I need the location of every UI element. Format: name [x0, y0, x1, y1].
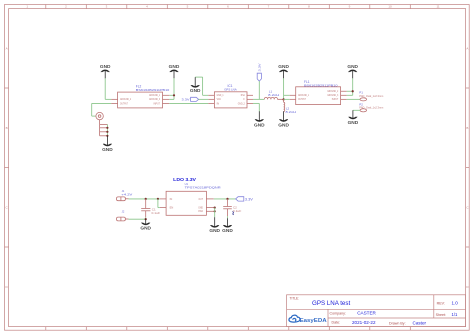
svg-text:2021-02-22: 2021-02-22 [352, 320, 376, 325]
pad P1 [360, 98, 367, 101]
svg-text:IN: IN [170, 197, 173, 201]
svg-text:CASTER: CASTER [357, 310, 376, 315]
regulator U1 TPS7A0218PDQNR [166, 191, 206, 215]
wire antenna to FL2 OUTPUT [92, 103, 112, 116]
svg-text:1/1: 1/1 [452, 312, 458, 317]
svg-text:GND_2: GND_2 [238, 103, 246, 105]
svg-text:GROUND_1: GROUND_1 [298, 95, 310, 97]
wire G4 down to FL1 right ground pins [347, 78, 353, 95]
wire junction to FL1 OUTPUT [284, 98, 290, 100]
svg-text:GPS LNA test: GPS LNA test [312, 300, 350, 307]
wire EN tie to IN [158, 199, 160, 208]
svg-text:VCC: VCC [217, 99, 222, 101]
ground flag G9 below connector [106, 136, 108, 145]
junction node L1-L2-FL1 [283, 98, 285, 100]
svg-text:A: A [466, 46, 468, 50]
junction at FL1 right ground [352, 90, 354, 92]
wire J1 to U1 IN [129, 198, 160, 200]
capacitor C2 0.1uF [223, 199, 232, 216]
antenna connector CON1 [96, 112, 108, 135]
svg-text:EN: EN [170, 206, 174, 210]
svg-text:GROUND_3: GROUND_3 [327, 95, 339, 97]
svg-text:OUT: OUT [199, 197, 204, 201]
wire G2 down to FL2 right ground pins [169, 78, 174, 99]
wire U1 OUT to flag and C2 [214, 198, 236, 200]
ground flag G8 below P2 [352, 110, 354, 118]
junction U1 GND pin [214, 207, 216, 209]
svg-text:8.2nH: 8.2nH [286, 110, 297, 114]
svg-text:GND: GND [348, 120, 359, 125]
svg-text:GND: GND [347, 64, 358, 69]
ground flag G12 below C2 [227, 218, 229, 226]
svg-text:PAD_Oval_1x2.3mm: PAD_Oval_1x2.3mm [359, 94, 383, 98]
ground flag G5 small [194, 77, 196, 86]
svg-text:GND: GND [198, 206, 203, 210]
svg-text:INPUT: INPUT [154, 103, 161, 105]
ground flag G4 above FL1 right [348, 70, 357, 72]
svg-text:GROUND_2: GROUND_2 [327, 91, 339, 93]
op-amp IC1 GPS LNA [214, 92, 247, 108]
svg-text:IN: IN [217, 103, 220, 105]
ground flag G6 below IC1 [258, 111, 260, 120]
svg-text:Drawn By:: Drawn By: [389, 322, 406, 326]
junction shield pin 3 [106, 131, 108, 133]
wire J2 to ground rail [129, 218, 146, 220]
svg-text:RSA: RSA [241, 94, 245, 97]
junction shield pin 2 [106, 127, 108, 129]
connector J1 +4.2V input [117, 197, 129, 201]
svg-text:GND: GND [140, 226, 151, 231]
svg-text:OUTPUT: OUTPUT [120, 103, 128, 105]
svg-text:10: 10 [388, 5, 392, 9]
svg-text:Date:: Date: [332, 321, 341, 325]
filter FL1 BS6162B2911PB10 [296, 87, 341, 105]
wire IC1 GND_2 to ground [253, 103, 259, 111]
svg-text:B: B [6, 126, 8, 130]
svg-text:REV:: REV: [437, 301, 445, 305]
svg-text:GND: GND [190, 88, 201, 93]
svg-text:1.0: 1.0 [452, 301, 459, 306]
svg-text:Sheet:: Sheet: [436, 313, 446, 317]
wire U1 GND-PAD to ground [214, 208, 216, 218]
svg-text:GND: GND [100, 64, 111, 69]
svg-text:GND: GND [222, 228, 233, 233]
junction shield pin 4 [106, 135, 108, 137]
wire C2 to ground [227, 216, 229, 218]
svg-text:PAD: PAD [198, 209, 203, 213]
capacitor C1 0.1uF [141, 199, 150, 217]
EasyEDA logo [289, 315, 300, 322]
svg-text:0.1uF: 0.1uF [233, 209, 242, 213]
ground flag G10 below C1 [145, 219, 147, 224]
wire FL1 INPUT to pad P1 [347, 98, 360, 100]
svg-text:BS6162B2911PB10: BS6162B2911PB10 [136, 88, 170, 92]
wire G1 to FL2 GROUND pin [105, 78, 111, 99]
ground flag G7 below L2 [283, 111, 285, 120]
ground flag G3 above L1/FL1 [279, 70, 288, 72]
wire 3.3V flag to IC1 VCC [199, 98, 209, 100]
wire IC1 GND_1 pin loop [195, 77, 208, 95]
inductor L1 8.2nH [264, 97, 277, 99]
svg-text:GND: GND [169, 64, 180, 69]
svg-text:11: 11 [436, 5, 439, 9]
wire FL2 INPUT to IC1 IN [169, 102, 208, 104]
svg-text:+4.2V: +4.2V [121, 192, 132, 196]
svg-text:3.3V: 3.3V [258, 64, 262, 72]
svg-text:LDO 3.3V: LDO 3.3V [173, 177, 197, 182]
svg-text:GROUND_3: GROUND_3 [149, 99, 161, 101]
svg-text:GPS LNA: GPS LNA [224, 88, 237, 92]
wire G3 down to FL1 ground [284, 78, 290, 99]
junction C2 top [226, 198, 228, 200]
wire C1 bottom [145, 217, 147, 219]
wire P2 to ground [353, 109, 360, 111]
svg-text:Caster: Caster [413, 320, 427, 325]
power flag 3.3V LDO output [236, 197, 244, 201]
junction EN tap [157, 198, 159, 200]
svg-text:INPUT: INPUT [332, 99, 339, 101]
svg-text:GND_1: GND_1 [217, 95, 225, 97]
pad P2 [360, 109, 367, 112]
svg-text:BS6162B2911PB10: BS6162B2911PB10 [304, 83, 338, 87]
svg-text:GND: GND [254, 122, 265, 127]
connector J2 ground return [117, 217, 129, 221]
svg-text:OUTPUT: OUTPUT [298, 99, 306, 101]
cursor artifact [232, 212, 234, 215]
svg-text:PAD_Oval_1x2.3mm: PAD_Oval_1x2.3mm [359, 106, 383, 110]
ground flag G1 top-left [101, 70, 110, 72]
wire vertical flag to IC1 OUT net [258, 81, 260, 99]
ground flag G11 below U1 [214, 217, 216, 226]
svg-text:GROUND_1: GROUND_1 [149, 95, 161, 97]
ground flag G2 [170, 70, 179, 72]
title block frame [287, 295, 466, 327]
svg-text:3.3V: 3.3V [182, 98, 190, 102]
svg-text:GND: GND [102, 147, 113, 152]
svg-text:A: A [6, 46, 8, 50]
svg-text:8.2nH: 8.2nH [268, 93, 279, 97]
svg-text:0.1uF: 0.1uF [152, 211, 161, 215]
svg-text:Company:: Company: [330, 312, 346, 316]
svg-text:EasyEDA: EasyEDA [300, 318, 327, 324]
svg-text:GROUND_2: GROUND_2 [120, 99, 132, 101]
junction C1 top [145, 198, 147, 200]
junction U1 PAD pin [214, 210, 216, 212]
wire IC1 OUT to L1 [253, 98, 264, 100]
svg-text:B: B [466, 126, 468, 130]
svg-text:TITLE:: TITLE: [290, 296, 300, 300]
svg-text:GND: GND [278, 64, 289, 69]
svg-text:3.3V: 3.3V [245, 197, 254, 201]
wire connector shield to ground [106, 124, 108, 136]
svg-text:GND: GND [278, 122, 289, 127]
filter FL2 BS6162B2911PB10 [118, 92, 163, 108]
svg-text:TPS7A0218PDQNR: TPS7A0218PDQNR [185, 186, 222, 190]
svg-text:GND: GND [209, 228, 220, 233]
junction ground rail [145, 218, 147, 220]
inductor L2 8.2nH shunt [283, 99, 285, 102]
junction at FL2 ground [173, 94, 175, 96]
